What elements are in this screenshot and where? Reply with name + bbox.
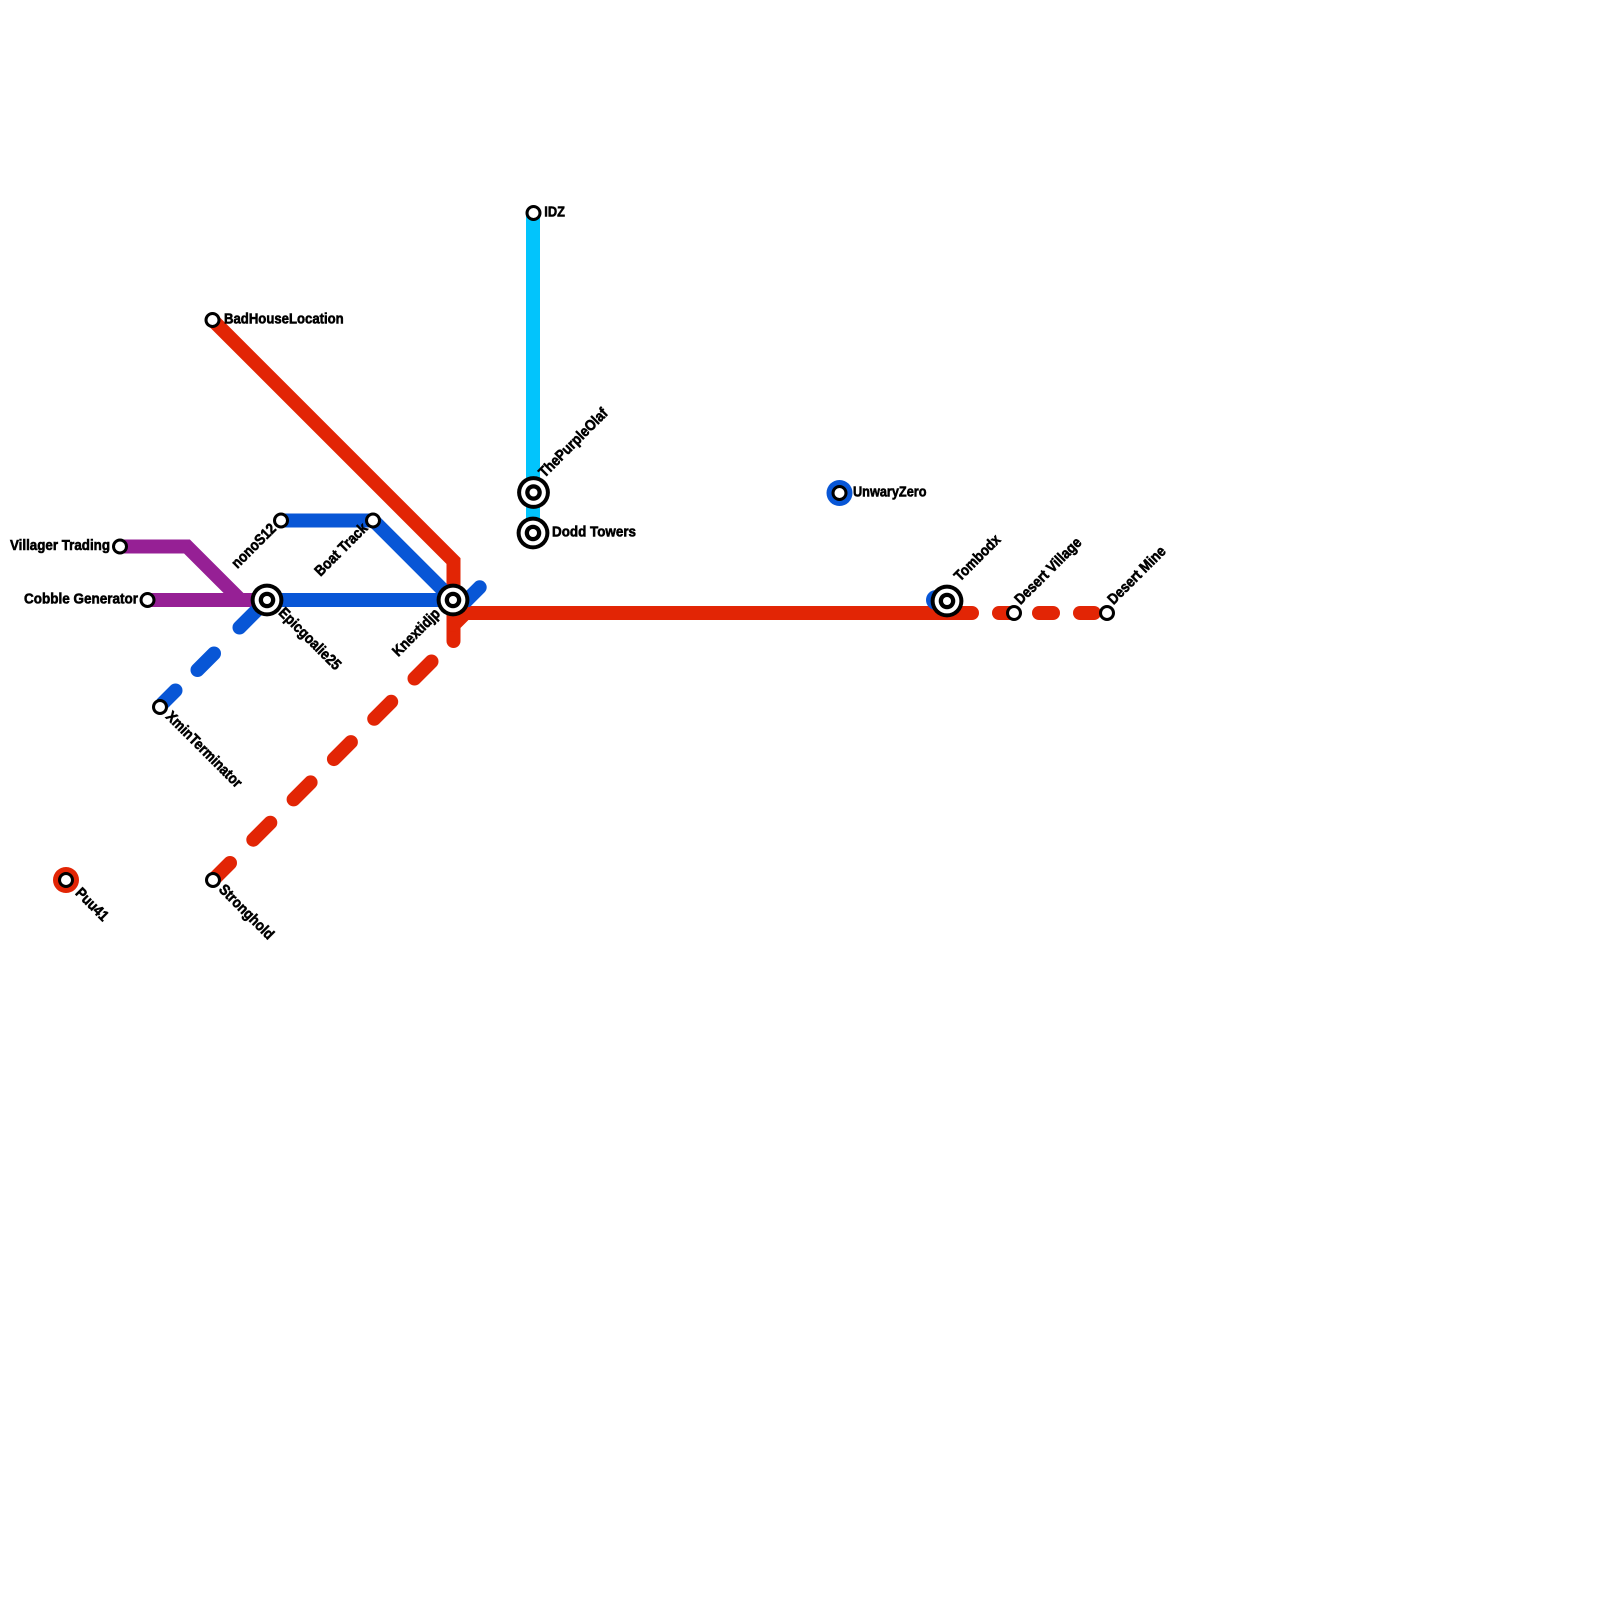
blue line Epicgoalie25 - Knextidjp - stub: [267, 587, 480, 600]
station Desert Village: [1006, 605, 1022, 621]
station Stronghold: [205, 872, 221, 888]
blue dashed dash 1: [198, 654, 215, 671]
station Villager Trading: [112, 539, 128, 555]
interchange Epicgoalie25: [251, 584, 284, 617]
red dashed diagonal Stronghold dash 5: [374, 702, 391, 719]
red line elbow + horizontal to Tombodx: [454, 613, 973, 625]
blue stub from Epicgoalie25 toward XminTerminator: [240, 600, 268, 628]
svg-text:Cobble Generator: Cobble Generator: [24, 591, 138, 608]
station nonoS12: [273, 513, 289, 529]
svg-text:Villager Trading: Villager Trading: [10, 537, 110, 554]
red dashed diagonal Stronghold dash 4: [334, 742, 351, 759]
red dashed diagonal Stronghold dash 6: [415, 662, 432, 679]
red line BadHouseLocation to stub below Knextidjp: [213, 320, 454, 641]
red dashed diagonal Stronghold dash 3: [294, 782, 311, 799]
cyan line IDZ - ThePurpleOlaf - Dodd Towers: [526, 213, 540, 533]
station Boat Track: [365, 513, 381, 529]
station IDZ: [526, 205, 542, 221]
station UnwaryZero (blue ringed): [827, 480, 853, 506]
station Puu41 (red ringed): [53, 867, 79, 893]
interchange Tombodx: [931, 585, 964, 618]
blue dashed dash 2: [163, 691, 176, 704]
red dashed diagonal Stronghold dash 1: [213, 863, 230, 880]
interchange Knextidjp: [437, 584, 470, 617]
red dashed diagonal Stronghold dash 2: [253, 823, 270, 840]
svg-text:UnwaryZero: UnwaryZero: [853, 484, 927, 501]
red dashed segment horizontal 1: [999, 606, 1013, 620]
station Desert Mine: [1099, 605, 1115, 621]
interchange Dodd Towers: [517, 517, 550, 550]
svg-text:IDZ: IDZ: [544, 204, 565, 221]
purple line Cobble Generator branch: [148, 593, 268, 607]
svg-text:Dodd Towers: Dodd Towers: [552, 524, 636, 541]
svg-text:BadHouseLocation: BadHouseLocation: [224, 311, 344, 328]
station BadHouseLocation: [205, 312, 221, 328]
station Cobble Generator: [140, 592, 156, 608]
red dashed segment horizontal 3: [1080, 606, 1094, 620]
blue disc behind Tombodx: [926, 590, 946, 610]
station XminTerminator: [152, 699, 168, 715]
blue line nonoS12 - Boat Track - Knextidjp: [281, 521, 453, 601]
interchange ThePurpleOlaf: [517, 476, 550, 509]
red dashed segment horizontal 2: [1039, 606, 1053, 620]
purple line Villager Trading branch: [120, 547, 267, 601]
